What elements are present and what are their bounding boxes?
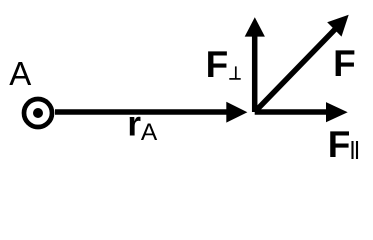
svg-text:F: F bbox=[328, 124, 351, 165]
label F_perp: perpendicular symbol bbox=[229, 78, 240, 80]
vector F_par arrow shaft bbox=[255, 109, 328, 115]
vector r_A arrow shaft bbox=[55, 109, 229, 115]
vector r_A arrowhead bbox=[226, 102, 247, 123]
svg-text:F: F bbox=[333, 43, 356, 84]
svg-text:r: r bbox=[127, 105, 141, 144]
svg-text:F: F bbox=[206, 44, 229, 85]
vector F_perp arrowhead bbox=[245, 17, 265, 36]
vector F arrow shaft (diagonal) bbox=[255, 29, 335, 112]
label F_par: parallel symbol bbox=[351, 141, 353, 159]
pivot point A (axis out of page: circle-dot) bbox=[24, 99, 52, 127]
vector F_perp arrow shaft bbox=[252, 35, 258, 112]
vector F arrowhead bbox=[327, 15, 349, 37]
vector F_par arrowhead bbox=[326, 102, 348, 122]
svg-text:A: A bbox=[141, 119, 158, 146]
svg-text:A: A bbox=[9, 55, 31, 92]
